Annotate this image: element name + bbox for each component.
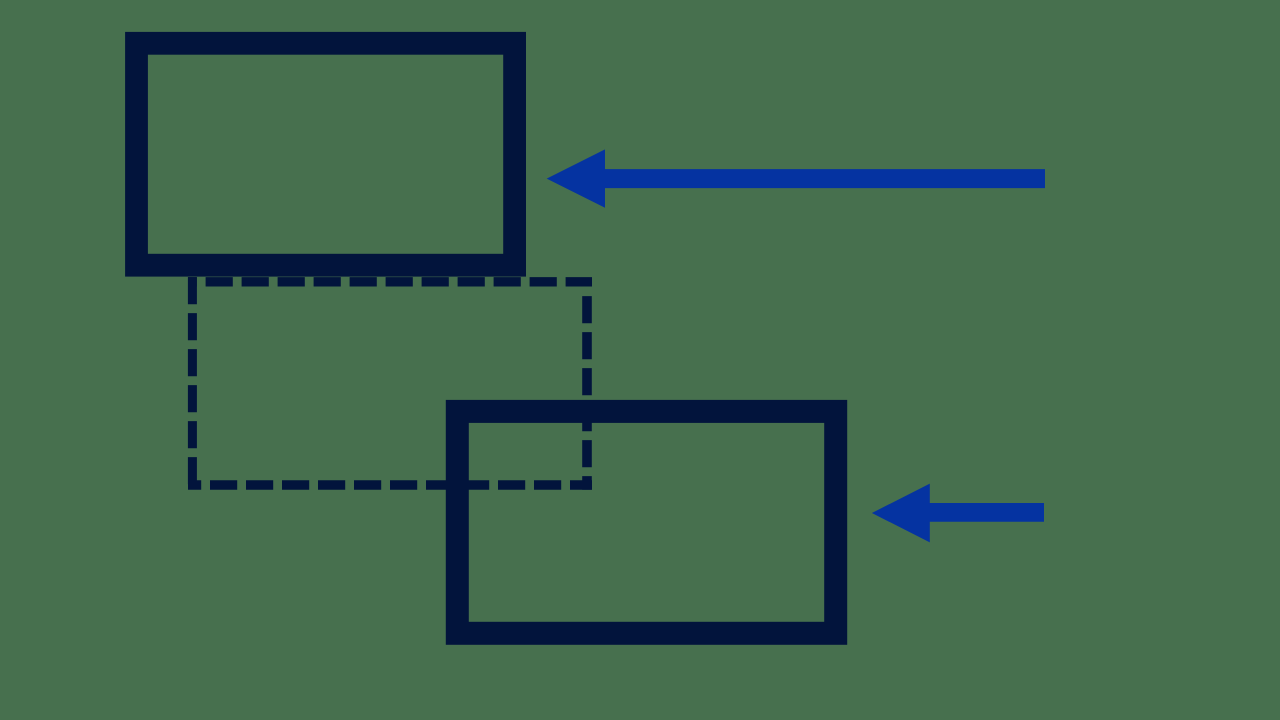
arrow 2 (bottom, pointing left)	[872, 484, 1044, 543]
dashed rectangle : right edge	[582, 296, 592, 490]
solid rectangle top-left	[137, 43, 515, 265]
dashed rectangle (original position) : top edge	[188, 277, 592, 286]
solid rectangle bottom-right	[457, 411, 835, 633]
arrow 1 (top, pointing left)	[547, 149, 1045, 207]
dashed rectangle : left edge	[188, 277, 197, 490]
dashed rectangle : bottom edge	[188, 480, 592, 489]
